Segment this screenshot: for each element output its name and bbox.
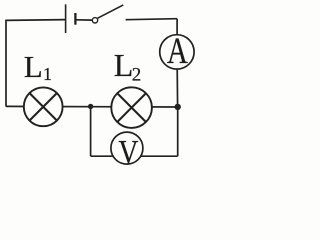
wire: top-left corner to battery positive plate xyxy=(6,19,66,22)
svg-text:L: L xyxy=(24,49,43,84)
lamp L2: cross filament xyxy=(118,94,146,122)
wire: node B down to bottom-right corner xyxy=(177,107,179,156)
lamp L1: cross filament xyxy=(30,93,57,120)
svg-text:V: V xyxy=(118,134,138,171)
svg-text:A: A xyxy=(167,31,188,72)
lamp L2: body circle xyxy=(111,87,152,128)
voltmeter V: body circle xyxy=(111,132,143,164)
switch S: pivot circle xyxy=(92,18,97,23)
wire: voltmeter bottom branch xyxy=(91,155,178,157)
lamp L1: body circle xyxy=(24,87,63,126)
node A: junction dot xyxy=(88,104,93,109)
ammeter A: body circle xyxy=(160,35,194,69)
battery B: long plate xyxy=(65,4,67,33)
node B: junction dot xyxy=(175,104,181,110)
wire: lamp row horizontal xyxy=(6,105,178,108)
battery B: short plate xyxy=(74,13,76,25)
wire: switch to top-right corner xyxy=(126,19,178,20)
wire: battery to switch pivot xyxy=(75,19,92,21)
switch S: open blade xyxy=(97,5,123,18)
wire: node A down to voltmeter branch xyxy=(90,107,92,157)
svg-text:2: 2 xyxy=(132,65,142,86)
svg-text:1: 1 xyxy=(43,64,52,84)
svg-text:L: L xyxy=(114,47,134,83)
wire: right vertical down into ammeter xyxy=(176,19,178,36)
wire: ammeter to node B xyxy=(176,68,178,107)
wire: left side vertical xyxy=(5,20,7,107)
